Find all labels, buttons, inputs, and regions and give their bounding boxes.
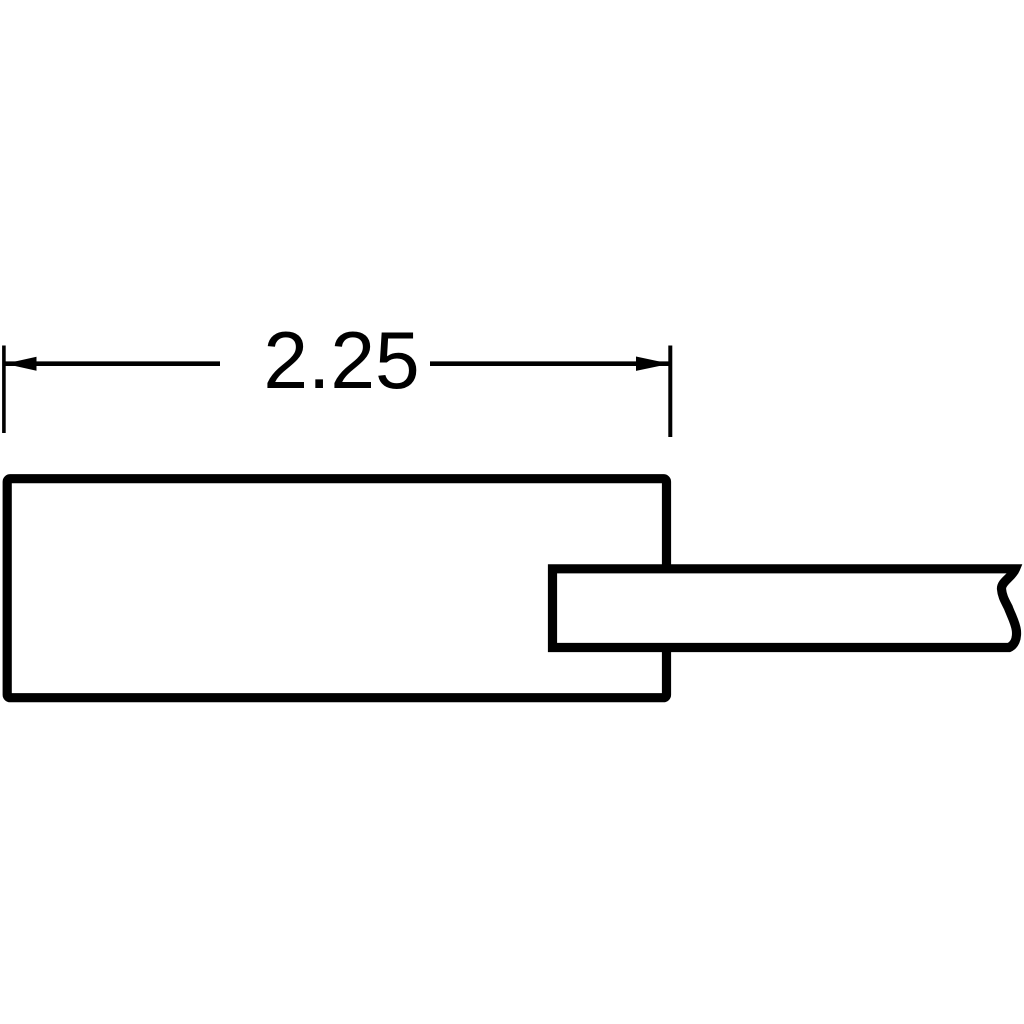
dimension line left segment xyxy=(4,361,220,366)
cable (with break line at right end) xyxy=(553,569,1017,648)
arrowhead left xyxy=(5,357,37,371)
sensor body outline xyxy=(7,479,666,698)
dimension line right segment xyxy=(430,361,670,366)
extension line left xyxy=(2,346,6,434)
extension line right xyxy=(668,346,672,438)
arrowhead right xyxy=(636,357,670,371)
svg-text:2.25: 2.25 xyxy=(263,316,419,406)
